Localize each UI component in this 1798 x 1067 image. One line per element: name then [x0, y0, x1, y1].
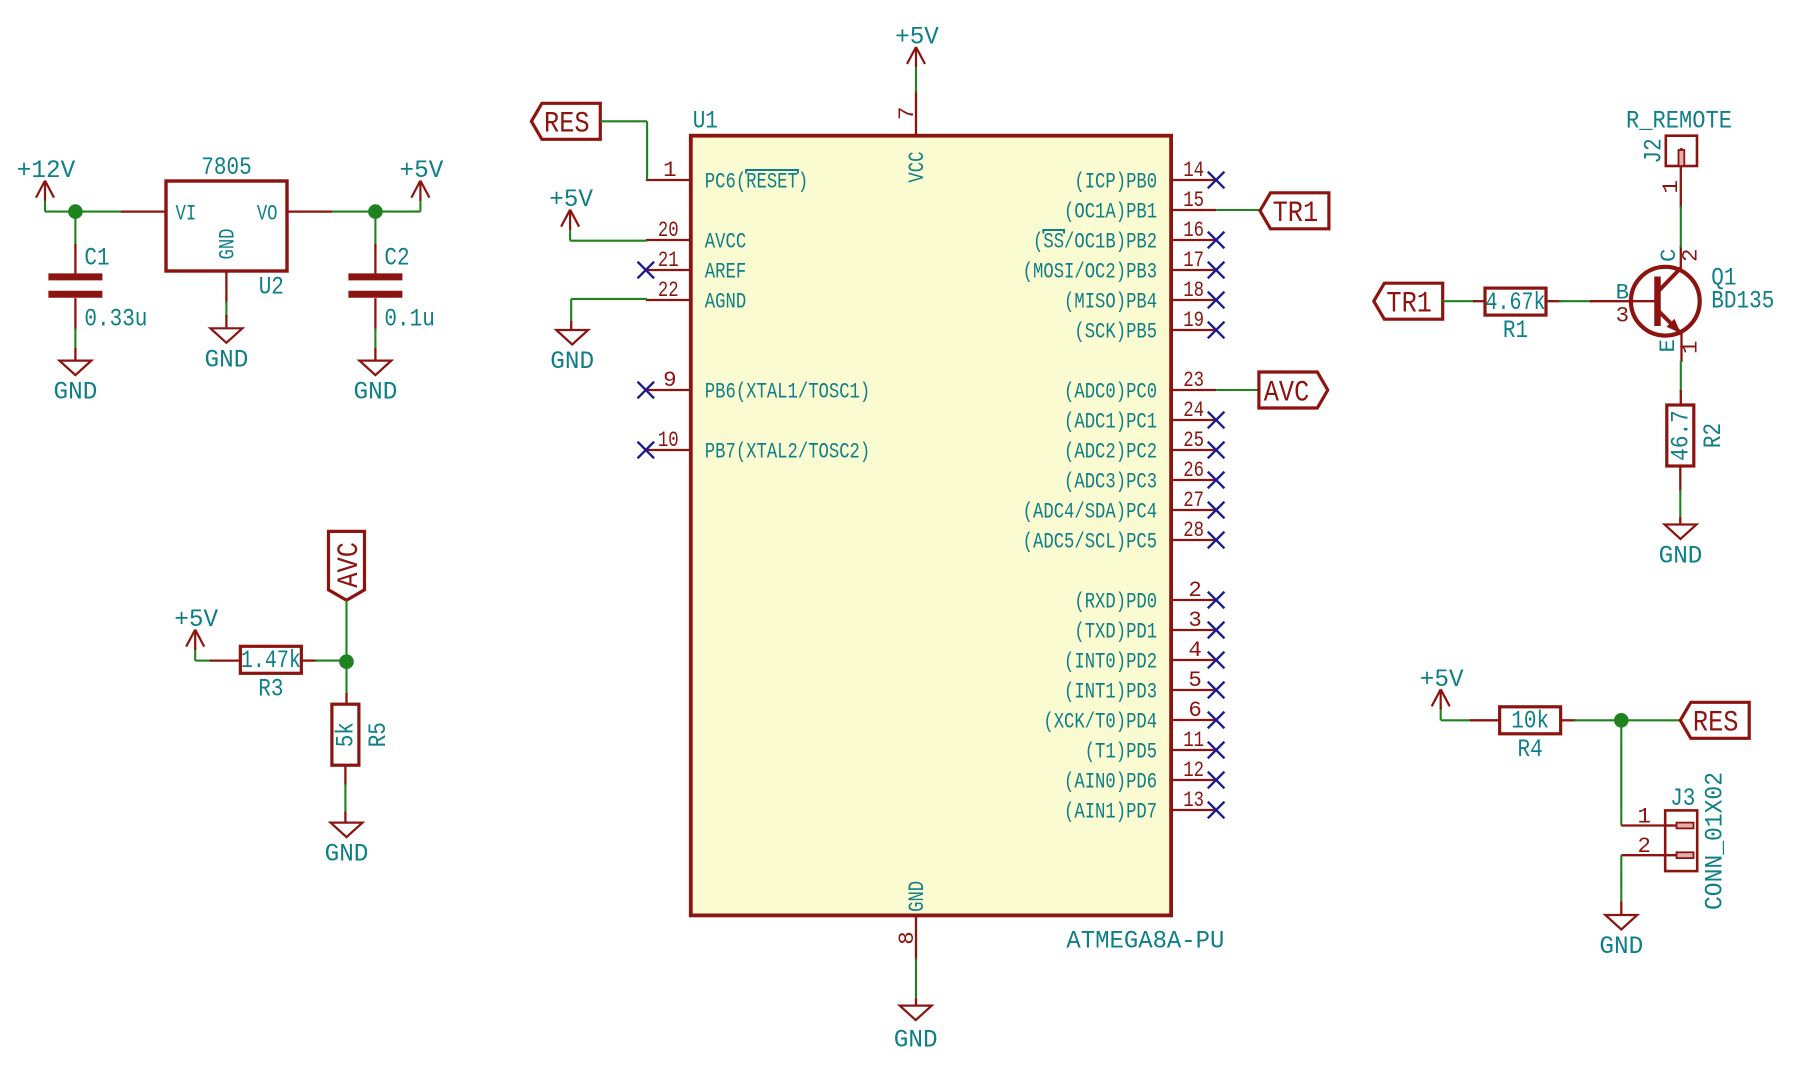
U1 pin 26 (ADC3)PC3 [1171, 479, 1216, 481]
U1 pin 28 (ADC5/SCL)PC5 [1171, 539, 1216, 541]
global label RES (pull-up) [1680, 702, 1749, 738]
no-connect pin 25 [1208, 442, 1225, 459]
U1 pin 15 (OC1A)PB1 [1171, 209, 1216, 211]
no-connect pin 17 [1208, 262, 1225, 279]
svg-text:AVC: AVC [1264, 375, 1310, 409]
U2 ground symbol [225, 315, 227, 328]
svg-text:6: 6 [1188, 697, 1201, 723]
U1 pin 19 (SCK)PB5 [1171, 329, 1216, 331]
transistor Q1 BD135 [1631, 267, 1700, 336]
mcu U1 ATMEGA8A-PU body [691, 136, 1171, 916]
svg-text:J2: J2 [1640, 138, 1669, 163]
svg-text:1: 1 [1638, 804, 1651, 830]
svg-text:AGND: AGND [705, 288, 746, 314]
svg-text:+5V: +5V [549, 185, 594, 214]
wire +12V rail to regulator VI [45, 211, 123, 213]
U1 pin 27 (ADC4/SDA)PC4 [1171, 509, 1216, 511]
no-connect pin 11 [1208, 742, 1225, 759]
svg-text:+5V: +5V [1420, 665, 1465, 694]
svg-text:4.67k: 4.67k [1486, 288, 1546, 317]
Q1 base pin [1590, 300, 1656, 302]
svg-text:+5V: +5V [174, 605, 219, 634]
J2 pin 1 [1680, 166, 1682, 208]
AGND ground symbol [570, 321, 572, 330]
svg-text:J3: J3 [1670, 784, 1695, 813]
svg-text:(ADC0)PC0: (ADC0)PC0 [1064, 378, 1157, 404]
svg-text:(SCK)PB5: (SCK)PB5 [1074, 318, 1157, 344]
U1 pin 4 (INT0)PD2 [1171, 659, 1216, 661]
no-connect pin 14 [1208, 172, 1225, 189]
wire pin 23 to AVC label [1216, 389, 1259, 391]
C2 ground symbol [374, 348, 376, 361]
svg-text:R2: R2 [1699, 423, 1728, 448]
svg-text:3: 3 [1188, 607, 1201, 633]
svg-text:5: 5 [1188, 667, 1201, 693]
no-connect pin 27 [1208, 502, 1225, 519]
svg-text:28: 28 [1183, 517, 1204, 543]
svg-text:16: 16 [1183, 217, 1204, 243]
svg-text:7: 7 [894, 107, 920, 120]
svg-text:GND: GND [904, 881, 930, 912]
svg-text:(MOSI/OC2)PB3: (MOSI/OC2)PB3 [1023, 258, 1157, 284]
svg-text:15: 15 [1183, 187, 1204, 213]
svg-text:U1: U1 [693, 107, 718, 136]
svg-text:1: 1 [663, 157, 676, 183]
wire junction down to C1 [74, 212, 76, 246]
U1 pin 11 (T1)PD5 [1171, 749, 1216, 751]
svg-text:(ADC1)PC1: (ADC1)PC1 [1064, 408, 1157, 434]
connector J2 body [1666, 136, 1697, 166]
svg-text:TR1: TR1 [1386, 287, 1432, 321]
U2 pin GND (vertical name) [225, 271, 227, 303]
power flag +5V (divider) [194, 648, 196, 661]
wire regulator VO to +5V [332, 211, 420, 213]
U1 pin 1 PC6(RESET) [646, 179, 691, 181]
svg-text:1: 1 [1658, 180, 1684, 193]
svg-text:RES: RES [1693, 706, 1739, 740]
svg-text:+12V: +12V [17, 156, 76, 185]
wire R4 to RES node [1561, 719, 1577, 721]
no-connect pin 5 [1208, 682, 1225, 699]
svg-text:18: 18 [1183, 277, 1204, 303]
connector J3 body [1665, 810, 1697, 871]
junction divider node [339, 654, 354, 669]
no-connect pin 6 [1208, 712, 1225, 729]
no-connect pin 10 [638, 442, 655, 459]
svg-text:C2: C2 [384, 244, 409, 273]
svg-text:AVC: AVC [332, 542, 366, 588]
svg-text:(TXD)PD1: (TXD)PD1 [1074, 618, 1157, 644]
svg-text:(AIN1)PD7: (AIN1)PD7 [1064, 798, 1157, 824]
Q1 collector pin [1680, 246, 1682, 270]
svg-text:PB6(XTAL1/TOSC1): PB6(XTAL1/TOSC1) [705, 378, 870, 404]
wire R2 to ground [1679, 467, 1681, 492]
no-connect pin 26 [1208, 472, 1225, 489]
junction C1 node [68, 204, 83, 219]
wire R1 to Q1 base [1546, 300, 1561, 302]
J3 pin 1 [1621, 824, 1665, 826]
U1 pin 17 (MOSI/OC2)PB3 [1171, 269, 1216, 271]
svg-text:U2: U2 [259, 273, 284, 302]
svg-text:5k: 5k [332, 722, 361, 747]
svg-text:(ADC4/SDA)PC4: (ADC4/SDA)PC4 [1023, 498, 1157, 524]
power flag +5V (VCC) [915, 65, 917, 78]
wire Q1 emitter to R2 [1680, 361, 1682, 392]
svg-text:8: 8 [894, 931, 920, 944]
svg-text:GND: GND [894, 1026, 938, 1055]
wire +5V to R3 [195, 660, 211, 662]
U1 pin 5 (INT1)PD3 [1171, 689, 1216, 691]
svg-text:10: 10 [658, 427, 679, 453]
U2 pin VO [287, 210, 332, 212]
svg-text:VCC: VCC [904, 152, 930, 183]
svg-text:25: 25 [1183, 427, 1204, 453]
svg-text:12: 12 [1183, 757, 1204, 783]
svg-text:11: 11 [1183, 727, 1204, 753]
svg-text:2: 2 [1678, 249, 1704, 262]
C1 ground symbol [74, 348, 76, 361]
U1 pin 8 GND [915, 915, 917, 960]
U1 pin 23 (ADC0)PC0 [1171, 389, 1216, 391]
global label AVC (at pin 23) [1259, 372, 1328, 408]
svg-text:RES: RES [544, 107, 590, 141]
svg-text:4: 4 [1188, 637, 1201, 663]
svg-text:(ADC2)PC2: (ADC2)PC2 [1064, 438, 1157, 464]
svg-text:(MISO)PB4: (MISO)PB4 [1064, 288, 1157, 314]
J3 pin 2 [1621, 854, 1665, 856]
svg-text:14: 14 [1183, 157, 1204, 183]
wire junction down to C2 [374, 212, 376, 246]
svg-text:9: 9 [663, 367, 676, 393]
global label TR1 (at pin 15) [1260, 193, 1329, 229]
svg-text:(ADC5/SCL)PC5: (ADC5/SCL)PC5 [1023, 528, 1157, 554]
wire C1 to ground [74, 298, 76, 330]
U1 pin 2 (RXD)PD0 [1171, 599, 1216, 601]
no-connect pin 24 [1208, 412, 1225, 429]
svg-text:23: 23 [1183, 367, 1204, 393]
wire node down to R5 [345, 662, 347, 695]
svg-text:R_REMOTE: R_REMOTE [1626, 107, 1732, 136]
svg-text:20: 20 [658, 217, 679, 243]
R5 ground symbol [344, 812, 346, 823]
U1 pin 20 AVCC [646, 239, 691, 241]
U2 pin VI [121, 210, 166, 212]
regulator U2 7805 body [166, 181, 287, 271]
svg-text:R4: R4 [1518, 735, 1543, 764]
svg-text:GND: GND [325, 840, 369, 869]
U1 pin 24 (ADC1)PC1 [1171, 419, 1216, 421]
capacitor C1 [74, 244, 76, 273]
resistor R5 [345, 693, 347, 705]
wire AVC label to divider node [345, 600, 347, 661]
svg-text:7805: 7805 [201, 153, 251, 182]
U1 pin 25 (ADC2)PC2 [1171, 449, 1216, 451]
no-connect pin 18 [1208, 292, 1225, 309]
U1 pin 16 (SS/OC1B)PB2 [1171, 239, 1216, 241]
svg-text:(ADC3)PC3: (ADC3)PC3 [1064, 468, 1157, 494]
U1 pin 3 (TXD)PD1 [1171, 629, 1216, 631]
svg-text:GND: GND [54, 378, 98, 407]
svg-text:13: 13 [1183, 787, 1204, 813]
wire +5V to R4 [1441, 719, 1472, 721]
no-connect pin 3 [1208, 622, 1225, 639]
wire node down to J3 pin 1 [1620, 720, 1622, 825]
power flag +5V (AVCC) [569, 228, 571, 241]
wire VCC pin to +5V [915, 75, 917, 93]
no-connect pin 9 [638, 382, 655, 399]
resistor R4 [1470, 719, 1500, 721]
svg-text:(INT1)PD3: (INT1)PD3 [1064, 678, 1157, 704]
wire U2 GND pin to ground [225, 302, 227, 318]
svg-text:21: 21 [658, 247, 679, 273]
no-connect pin 28 [1208, 532, 1225, 549]
svg-text:0.33u: 0.33u [84, 305, 147, 334]
U1 pin 21 AREF [646, 269, 691, 271]
svg-text:R5: R5 [364, 722, 393, 747]
global label AVC (vertical) [329, 531, 365, 600]
svg-text:2: 2 [1638, 833, 1651, 859]
svg-text:46.7: 46.7 [1667, 410, 1696, 460]
svg-text:GND: GND [1599, 932, 1643, 961]
svg-text:27: 27 [1183, 487, 1204, 513]
svg-text:GND: GND [205, 345, 249, 374]
U1 pin 10 PB7(XTAL2/TOSC2) [646, 449, 691, 451]
power flag +5V (pull-up) [1440, 707, 1442, 720]
svg-text:10k: 10k [1511, 707, 1549, 736]
no-connect pin 12 [1208, 772, 1225, 789]
U1 pin 6 (XCK/T0)PD4 [1171, 719, 1216, 721]
no-connect pin 21 [638, 262, 655, 279]
power flag +12V [44, 199, 46, 212]
svg-text:3: 3 [1616, 303, 1629, 329]
wire TR1 label to R1 [1443, 300, 1475, 302]
svg-text:(ICP)PB0: (ICP)PB0 [1074, 168, 1157, 194]
svg-text:(OC1A)PB1: (OC1A)PB1 [1064, 198, 1157, 224]
global label TR1 (transistor base) [1374, 283, 1443, 319]
junction RES node [1614, 713, 1629, 728]
power flag +5V (regulator output) [419, 199, 421, 212]
wire J2 to Q1 collector [1680, 206, 1682, 248]
svg-text:BD135: BD135 [1711, 287, 1774, 316]
svg-text:GND: GND [354, 378, 398, 407]
svg-text:+5V: +5V [895, 23, 940, 52]
U1 pin 7 VCC [915, 91, 917, 136]
resistor R3 [210, 659, 241, 661]
svg-text:(SS/OC1B)PB2: (SS/OC1B)PB2 [1033, 228, 1157, 254]
global label RES (reset net) [531, 103, 600, 139]
svg-text:AVCC: AVCC [705, 228, 746, 254]
resistor R1 [1473, 300, 1485, 302]
no-connect pin 13 [1208, 802, 1225, 819]
svg-text:GND: GND [1659, 542, 1703, 571]
svg-text:AREF: AREF [705, 258, 746, 284]
svg-text:1: 1 [1678, 341, 1704, 354]
wire R5 to ground [344, 765, 346, 785]
resistor R2 [1680, 390, 1682, 405]
Q1 emitter pin [1680, 333, 1682, 362]
svg-text:R1: R1 [1503, 316, 1528, 345]
Q1 ground symbol [1679, 517, 1681, 525]
J3 ground symbol [1620, 902, 1622, 916]
U1 pin 18 (MISO)PB4 [1171, 299, 1216, 301]
svg-text:22: 22 [658, 277, 679, 303]
svg-text:(T1)PD5: (T1)PD5 [1085, 738, 1157, 764]
Q1 emitter arrow [1667, 319, 1681, 334]
svg-text:17: 17 [1183, 247, 1204, 273]
U1 pin 9 PB6(XTAL1/TOSC1) [646, 389, 691, 391]
wire pin 15 to TR1 label [1216, 209, 1260, 211]
junction C2 node [368, 204, 383, 219]
no-connect pin 4 [1208, 652, 1225, 669]
wire RES label to pin 1 [600, 120, 647, 122]
svg-text:(AIN0)PD6: (AIN0)PD6 [1064, 768, 1157, 794]
svg-text:ATMEGA8A-PU: ATMEGA8A-PU [1066, 927, 1224, 956]
svg-text:CONN_01X02: CONN_01X02 [1701, 772, 1730, 910]
svg-text:C1: C1 [84, 244, 109, 273]
svg-text:VO: VO [257, 201, 278, 227]
svg-text:+5V: +5V [400, 156, 445, 185]
svg-text:(RXD)PD0: (RXD)PD0 [1074, 588, 1157, 614]
svg-text:26: 26 [1183, 457, 1204, 483]
U1 pin 22 AGND [646, 299, 691, 301]
svg-text:GND: GND [214, 228, 240, 259]
svg-text:GND: GND [550, 347, 594, 376]
svg-text:PB7(XTAL2/TOSC2): PB7(XTAL2/TOSC2) [705, 438, 870, 464]
svg-text:0.1u: 0.1u [384, 305, 434, 334]
svg-text:2: 2 [1188, 577, 1201, 603]
U1 pin 14 (ICP)PB0 [1171, 179, 1216, 181]
wire GND pin to ground [915, 958, 917, 1000]
no-connect pin 19 [1208, 322, 1225, 339]
capacitor C2 [374, 244, 376, 273]
no-connect pin 16 [1208, 232, 1225, 249]
svg-text:TR1: TR1 [1273, 196, 1319, 230]
U1 ground symbol [915, 998, 917, 1005]
wire +5V to AVCC pin [570, 240, 647, 242]
svg-text:VI: VI [176, 201, 197, 227]
svg-text:R3: R3 [258, 674, 283, 703]
wire AGND pin to ground [571, 298, 647, 300]
svg-text:19: 19 [1183, 307, 1204, 333]
wire C2 to ground [374, 298, 376, 330]
svg-text:(XCK/T0)PD4: (XCK/T0)PD4 [1043, 708, 1157, 734]
svg-text:1.47k: 1.47k [241, 646, 301, 675]
U1 pin 13 (AIN1)PD7 [1171, 809, 1216, 811]
U1 pin 12 (AIN0)PD6 [1171, 779, 1216, 781]
wire R3 to node [302, 659, 318, 661]
wire J3 pin 2 to ground [1620, 855, 1622, 903]
svg-text:24: 24 [1183, 397, 1204, 423]
svg-text:PC6(RESET): PC6(RESET) [705, 168, 808, 194]
svg-text:(INT0)PD2: (INT0)PD2 [1064, 648, 1157, 674]
no-connect pin 2 [1208, 592, 1225, 609]
